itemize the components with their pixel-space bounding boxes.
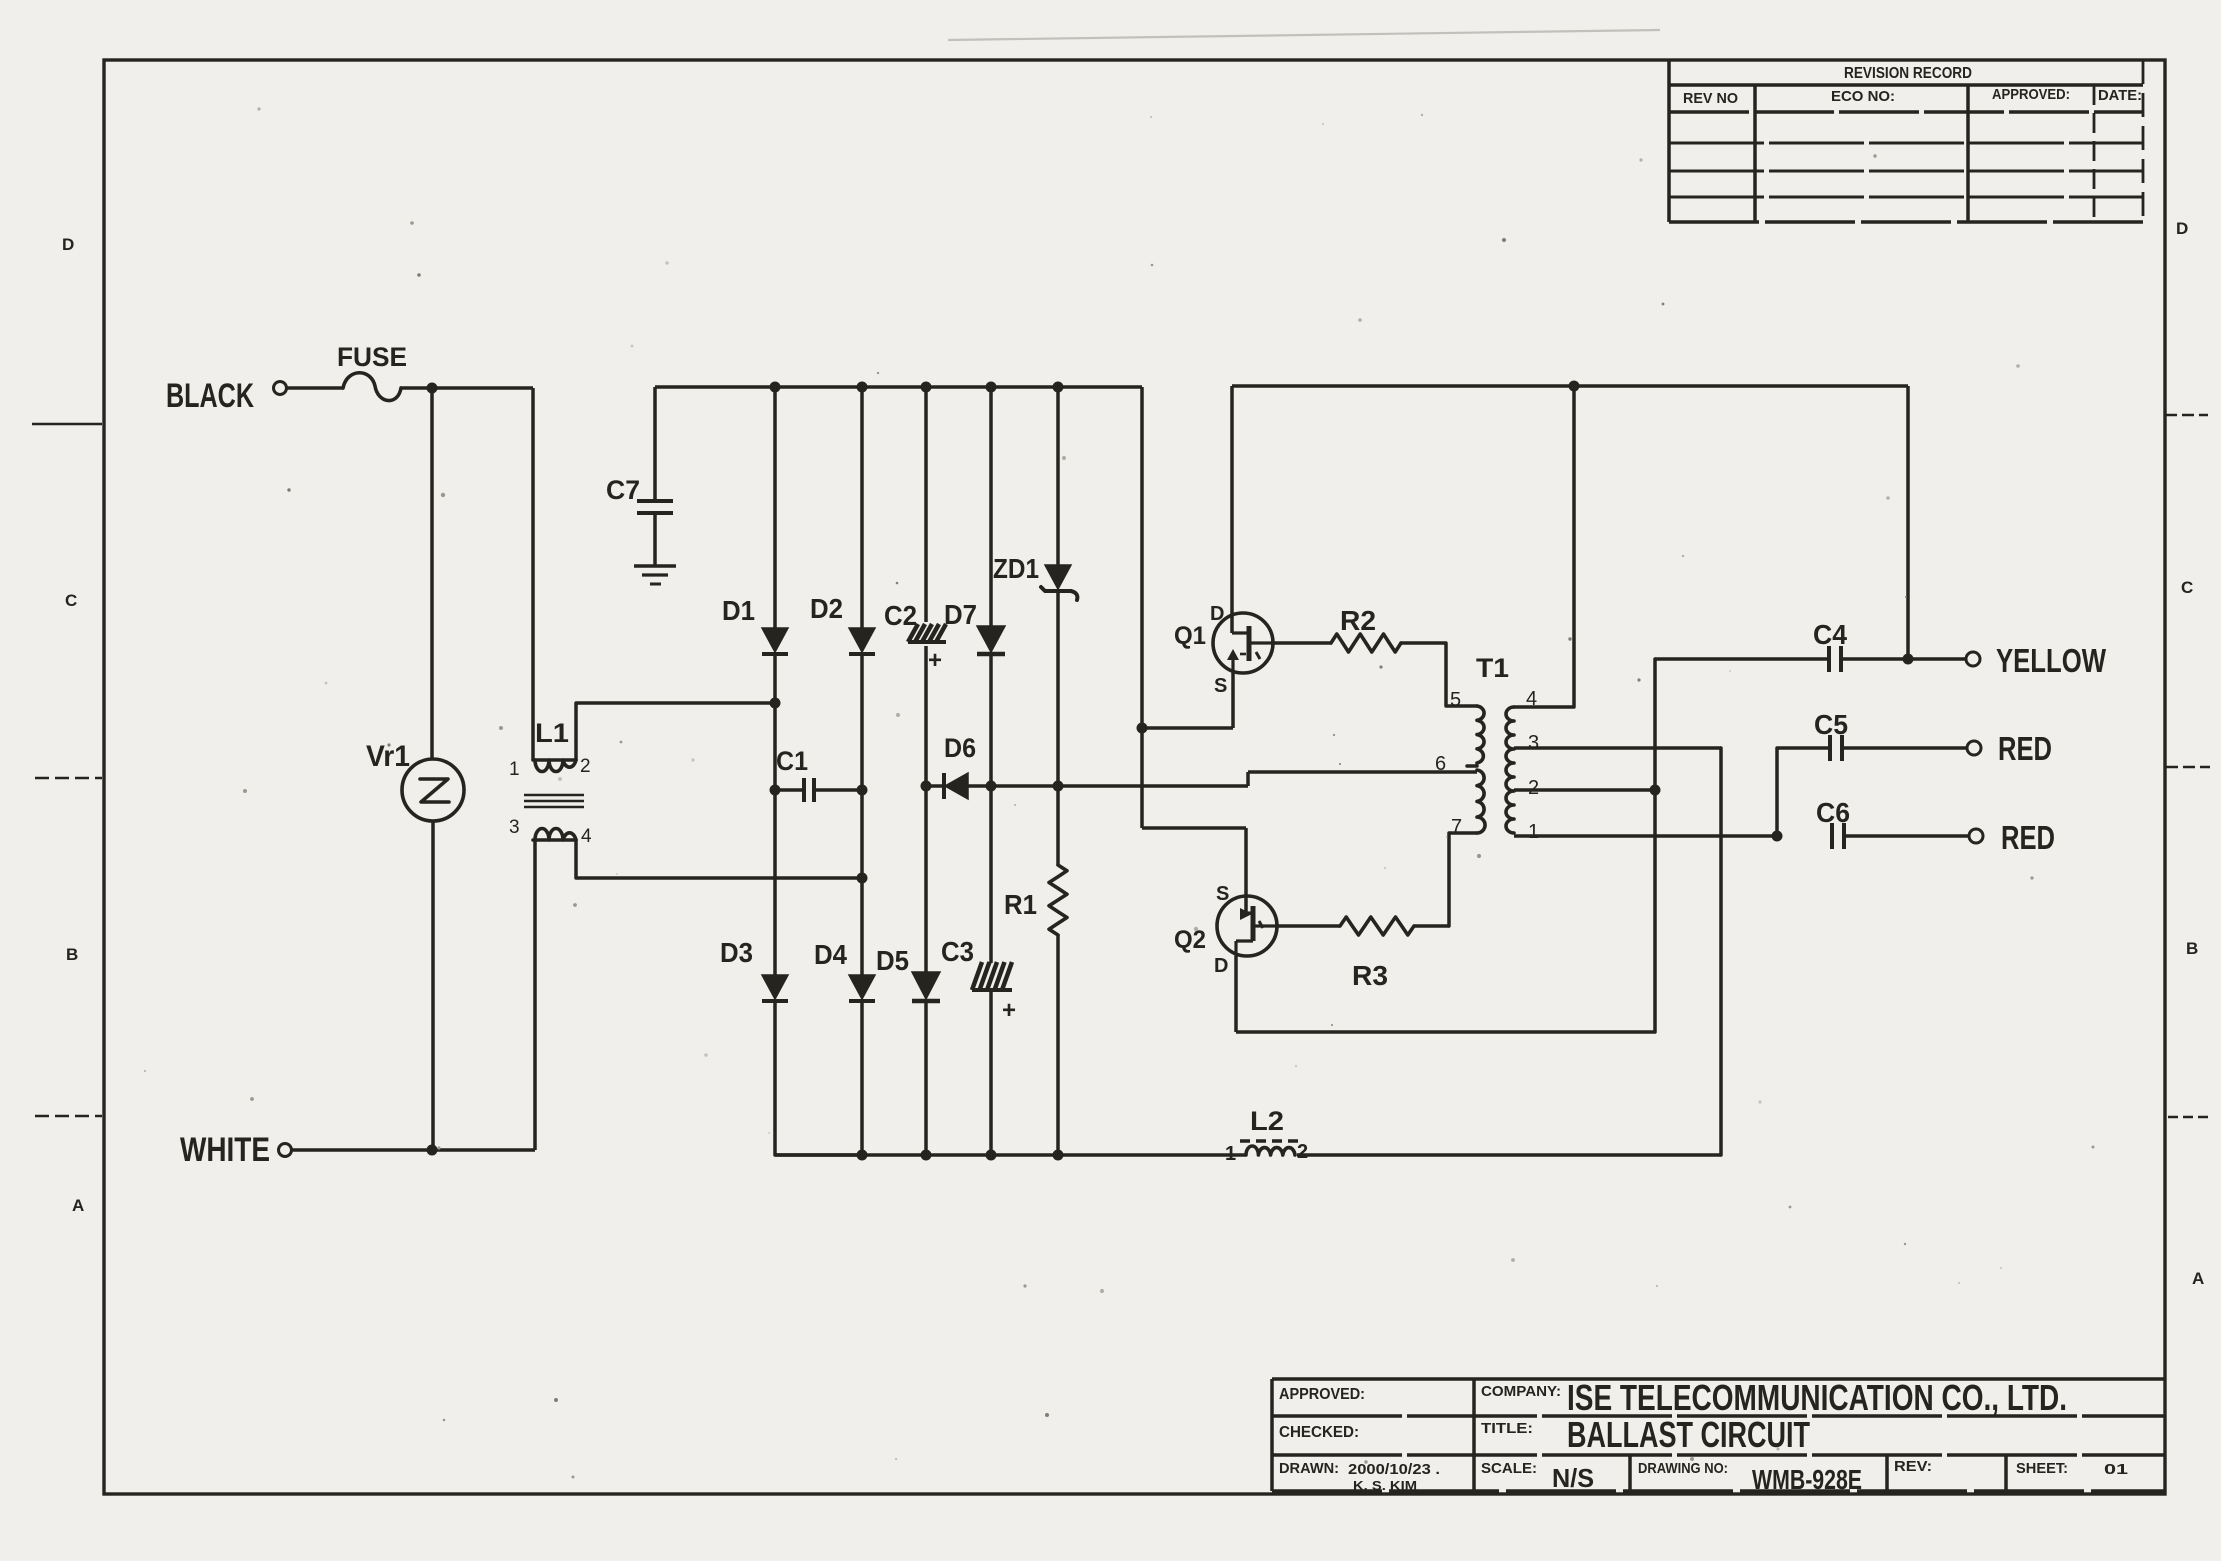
L1 core lines	[524, 794, 584, 797]
varistor Vr1 symbol	[402, 759, 464, 821]
diode D4	[849, 975, 875, 999]
node pin2 to C4 column	[1650, 785, 1661, 796]
diode D6 (points left)	[942, 773, 946, 799]
svg-text:D3: D3	[720, 937, 753, 968]
svg-text:A: A	[2192, 1269, 2204, 1288]
svg-text:2000/10/23 .: 2000/10/23 .	[1348, 1461, 1440, 1478]
svg-text:REV NO: REV NO	[1683, 90, 1738, 107]
svg-text:CHECKED:: CHECKED:	[1279, 1424, 1359, 1441]
svg-text:D1: D1	[722, 595, 755, 626]
zener diode ZD1	[1045, 565, 1071, 589]
wire pin3 column down	[1719, 748, 1723, 1155]
title block divider sheet	[2004, 1455, 2008, 1491]
wire C2 column lower	[924, 786, 928, 972]
wire D2 column middle	[860, 790, 864, 878]
fuse F1 symbol	[343, 373, 401, 401]
svg-text:7: 7	[1451, 816, 1462, 838]
wire Vr1 column upper	[430, 388, 434, 759]
title block divider drawing-no	[1628, 1455, 1632, 1495]
svg-text:1: 1	[509, 759, 520, 780]
node bottom bus D4	[857, 1150, 868, 1161]
svg-text:DRAWN:: DRAWN:	[1279, 1460, 1339, 1477]
RED output terminal upper	[1967, 741, 1981, 755]
wire D6 left lead	[926, 784, 944, 788]
left frame tick C/D	[32, 423, 102, 426]
svg-text:APPROVED:: APPROVED:	[1279, 1386, 1365, 1403]
resistor R3	[1340, 917, 1414, 935]
wire C6 right lead	[1844, 834, 1969, 838]
wire R1 lower lead	[1056, 935, 1060, 1155]
svg-text:2: 2	[580, 756, 591, 777]
svg-text:FUSE: FUSE	[337, 342, 407, 372]
wire D3 to bottom bus	[775, 1003, 862, 1155]
paper top edge artifact	[948, 30, 1660, 40]
node pin1/C5/C6 junction	[1772, 831, 1783, 842]
wire L1 pin1 lead	[531, 388, 535, 760]
node D6 row left	[921, 781, 932, 792]
node C1 right	[857, 785, 868, 796]
svg-text:C7: C7	[606, 475, 640, 505]
wire C7 to ground	[653, 513, 657, 566]
node top right bus pin4	[1569, 381, 1580, 392]
wire T1 pin7 lead	[1449, 833, 1477, 926]
node top bus / ZD1	[1053, 382, 1064, 393]
wire D7 to D6 row	[989, 654, 993, 786]
svg-text:5: 5	[1450, 689, 1461, 711]
svg-text:C4: C4	[1813, 619, 1847, 650]
svg-text:D: D	[2176, 219, 2188, 238]
node top bus / D2	[857, 382, 868, 393]
node D6 row ZD1/R1 junction	[1053, 781, 1064, 792]
wire Q1 source lead	[1231, 673, 1235, 728]
svg-text:COMPANY:: COMPANY:	[1481, 1383, 1561, 1400]
svg-text:SCALE:: SCALE:	[1481, 1460, 1537, 1477]
wire T1 pin4 lead	[1514, 386, 1574, 707]
wire D7 column lower	[989, 786, 993, 963]
title block divider company column	[1472, 1379, 1476, 1491]
T1 primary mid tap jog	[1467, 764, 1477, 768]
wire C1 left	[775, 788, 804, 792]
svg-text:APPROVED:: APPROVED:	[1992, 86, 2070, 103]
wire D5 to bottom bus	[924, 1001, 928, 1155]
wire T1 pin3 lead	[1514, 746, 1721, 750]
svg-text:2: 2	[1528, 777, 1539, 799]
node Q1 source junction	[1137, 723, 1148, 734]
resistor R2	[1331, 634, 1401, 652]
node top bus / D7	[986, 382, 997, 393]
title block frame	[1272, 1377, 2165, 1381]
wire D2 to C1 node	[860, 656, 864, 790]
svg-text:R3: R3	[1352, 960, 1388, 991]
svg-text:S: S	[1214, 675, 1227, 697]
wire C4 right lead	[1841, 657, 1966, 661]
node bottom bus D5	[921, 1150, 932, 1161]
node junction fuse/Vr1	[427, 383, 438, 394]
common-mode choke L1 top winding	[533, 758, 576, 762]
revision table header bottom line	[1669, 110, 2143, 114]
svg-text:K. S. KIM: K. S. KIM	[1353, 1478, 1417, 1493]
revision record table frame	[1667, 60, 1671, 222]
svg-text:D: D	[1214, 955, 1228, 977]
svg-text:4: 4	[581, 826, 592, 847]
node bottom bus C3	[986, 1150, 997, 1161]
svg-text:SHEET:: SHEET:	[2016, 1460, 2068, 1477]
wire BLACK terminal to fuse	[287, 386, 343, 390]
svg-text:Q1: Q1	[1174, 622, 1206, 650]
svg-text:01: 01	[2104, 1461, 2128, 1478]
inductor L2	[1246, 1146, 1295, 1155]
svg-text:ISE TELECOMMUNICATION CO., LTD: ISE TELECOMMUNICATION CO., LTD.	[1567, 1377, 2067, 1418]
node top bus / D1	[770, 382, 781, 393]
common-mode choke L1 bottom winding	[533, 838, 576, 842]
right frame tick A/B	[2168, 1116, 2212, 1119]
wire bottom bus left segment	[775, 1153, 1246, 1157]
node top bus / C2	[921, 382, 932, 393]
wire T1 pin2 lead	[1514, 788, 1655, 792]
node YELLOW row junction	[1903, 654, 1914, 665]
wire R3 to T1 pin7	[1414, 924, 1449, 928]
capacitor C3 electrolytic plate	[972, 988, 1012, 992]
svg-text:D2: D2	[810, 593, 843, 624]
diode D1	[762, 628, 788, 652]
svg-text:L2: L2	[1250, 1106, 1284, 1136]
wire C5 left lead	[1777, 748, 1830, 836]
svg-text:L1: L1	[535, 718, 569, 748]
diode D3	[762, 975, 788, 999]
wire to Q1 source	[1142, 726, 1233, 730]
wire C2 column middle	[924, 646, 928, 786]
svg-text:B: B	[66, 945, 78, 964]
svg-text:D7: D7	[944, 599, 977, 630]
wire bottom bus right segment	[1297, 1153, 1721, 1157]
wire D6 right lead to step	[968, 784, 1248, 788]
diode D5	[912, 972, 940, 999]
wire to Q2 source	[1142, 826, 1246, 830]
svg-text:2: 2	[1297, 1141, 1308, 1163]
svg-text:1: 1	[1225, 1143, 1236, 1165]
wire Vr1 column lower	[431, 821, 435, 1150]
revision table title row line	[1669, 83, 2143, 87]
node D6 row D7 junction	[986, 781, 997, 792]
wire D2 column to D4	[860, 878, 864, 975]
wire D1 to node	[773, 656, 777, 703]
capacitor C6 symbol	[1830, 823, 1834, 849]
svg-text:R1: R1	[1004, 889, 1037, 920]
svg-text:RED: RED	[2001, 819, 2055, 856]
svg-text:C1: C1	[776, 746, 808, 776]
wire Q2 source lead	[1244, 828, 1248, 913]
wire L1 pin3 lead	[533, 840, 537, 1150]
wire ZD1 to D6 row	[1056, 591, 1060, 786]
node bottom bus R1	[1053, 1150, 1064, 1161]
svg-text:D4: D4	[814, 939, 847, 970]
svg-text:RED: RED	[1998, 730, 2052, 767]
node junction WHITE/Vr1	[427, 1145, 438, 1156]
revision table row line 1	[1669, 142, 2143, 145]
wire Q1 drain lead	[1230, 386, 1234, 633]
svg-text:+: +	[1002, 997, 1016, 1024]
BLACK input terminal	[274, 382, 287, 395]
revision table column ECO NO divider	[1966, 85, 1970, 222]
wire top DC bus	[655, 385, 1142, 389]
wire Q2 drain lead	[1234, 956, 1238, 1032]
svg-text:3: 3	[509, 817, 520, 838]
wire D7 column upper	[989, 387, 993, 626]
RED output terminal lower	[1969, 829, 1983, 843]
capacitor C4 symbol	[1827, 646, 1831, 672]
wire C3 to bottom bus	[989, 990, 993, 1155]
capacitor C2 electrolytic plate	[908, 640, 946, 644]
revision table column REV NO divider	[1753, 85, 1757, 222]
transistor Q2 (MOSFET)	[1217, 896, 1277, 956]
wire C5 right lead	[1842, 746, 1967, 750]
wire C4 left lead	[1655, 657, 1829, 661]
svg-text:WHITE: WHITE	[180, 1131, 270, 1169]
wire T1 pin1 lead	[1514, 834, 1777, 838]
L2 core dashed line	[1240, 1139, 1300, 1142]
wire Q1 drain top bus	[1232, 384, 1908, 388]
wire top bus right corner down	[1140, 387, 1144, 828]
revision table column DATE divider	[2093, 85, 2096, 222]
wire R2 to T1 pin5	[1401, 643, 1477, 706]
wire C1 right	[814, 788, 862, 792]
left frame tick A/B	[35, 1115, 102, 1118]
svg-text:T1: T1	[1476, 653, 1509, 683]
svg-text:C: C	[65, 591, 77, 610]
capacitor C1 symbol	[802, 778, 806, 802]
wire Q2 drain row	[1236, 1030, 1655, 1034]
wire D2 column upper	[860, 387, 864, 628]
wire D1 column upper	[773, 387, 777, 628]
wire L1 pin2 to D1 column	[576, 703, 775, 760]
WHITE input terminal	[279, 1144, 292, 1157]
svg-text:A: A	[72, 1196, 84, 1215]
YELLOW output terminal	[1966, 652, 1980, 666]
node L1 pin4 junction	[857, 873, 868, 884]
capacitor C7 symbol	[637, 499, 673, 503]
transistor Q1 (MOSFET)	[1213, 613, 1273, 673]
svg-text:ZD1: ZD1	[993, 553, 1039, 584]
transformer T1 primary winding lower	[1477, 770, 1485, 833]
node C1 left	[770, 785, 781, 796]
resistor R1	[1049, 865, 1067, 935]
right frame tick C/D	[2165, 414, 2208, 417]
svg-text:C3: C3	[941, 936, 974, 967]
wire C2 column upper	[924, 387, 928, 622]
revision table row line 3	[1669, 196, 2143, 199]
left frame tick B/C	[35, 777, 102, 780]
wire Q2 gate to R3	[1277, 924, 1340, 928]
scan speckles	[1421, 114, 1423, 116]
svg-text:REVISION RECORD: REVISION RECORD	[1844, 65, 1972, 82]
title block divider rev	[1885, 1455, 1889, 1491]
svg-text:D5: D5	[876, 945, 909, 976]
svg-text:TITLE:: TITLE:	[1481, 1420, 1533, 1437]
svg-text:C: C	[2181, 578, 2193, 597]
wire ZD1 column upper	[1056, 387, 1060, 565]
node D1/L1 junction	[770, 698, 781, 709]
revision table row line 2	[1669, 170, 2143, 173]
svg-text:YELLOW: YELLOW	[1996, 642, 2107, 679]
wire Q1 gate to R2	[1273, 641, 1331, 645]
transformer T1 secondary winding	[1506, 707, 1514, 833]
wire R1 upper lead	[1056, 786, 1060, 865]
svg-text:6: 6	[1435, 753, 1446, 775]
svg-text:N/S: N/S	[1552, 1463, 1594, 1493]
capacitor C5 symbol	[1828, 735, 1832, 761]
svg-text:BALLAST CIRCUIT: BALLAST CIRCUIT	[1567, 1414, 1810, 1455]
svg-text:WMB-928E: WMB-928E	[1752, 1464, 1862, 1495]
wire L1 pin4 to D2 column	[576, 840, 862, 878]
svg-text:C2: C2	[884, 600, 917, 631]
right frame tick B/C	[2166, 766, 2210, 769]
wire D6 row step up	[1246, 772, 1250, 786]
transformer T1 primary winding upper	[1477, 706, 1484, 763]
diode D2	[849, 628, 875, 652]
wire D4 to bottom bus	[860, 1003, 864, 1155]
ground symbol	[634, 564, 676, 567]
wire fuse to L1 pin1 corner	[401, 386, 533, 390]
wire WHITE terminal to L1 pin3	[292, 1148, 535, 1152]
svg-text:ECO NO:: ECO NO:	[1831, 88, 1895, 105]
svg-text:BLACK: BLACK	[166, 377, 254, 415]
diode D7	[977, 626, 1005, 652]
svg-text:B: B	[2186, 939, 2198, 958]
svg-text:+: +	[928, 647, 942, 674]
wire C4 row left vertical	[1653, 659, 1657, 1032]
svg-text:R2: R2	[1340, 605, 1376, 636]
svg-text:Q2: Q2	[1174, 926, 1206, 954]
svg-text:3: 3	[1528, 732, 1539, 754]
svg-text:DRAWING NO:: DRAWING NO:	[1638, 1460, 1728, 1477]
svg-text:REV:: REV:	[1894, 1458, 1932, 1475]
wire top right corner down to YELLOW row	[1906, 386, 1910, 659]
svg-text:DATE:: DATE:	[2098, 87, 2142, 104]
wire D1 column to D3	[773, 703, 777, 975]
svg-text:D6: D6	[944, 733, 976, 763]
wire top bus left end down to C7	[653, 387, 657, 499]
svg-text:D: D	[62, 235, 74, 254]
wire D6 row to T1 pin6	[1248, 770, 1477, 774]
svg-text:1: 1	[1528, 821, 1539, 843]
